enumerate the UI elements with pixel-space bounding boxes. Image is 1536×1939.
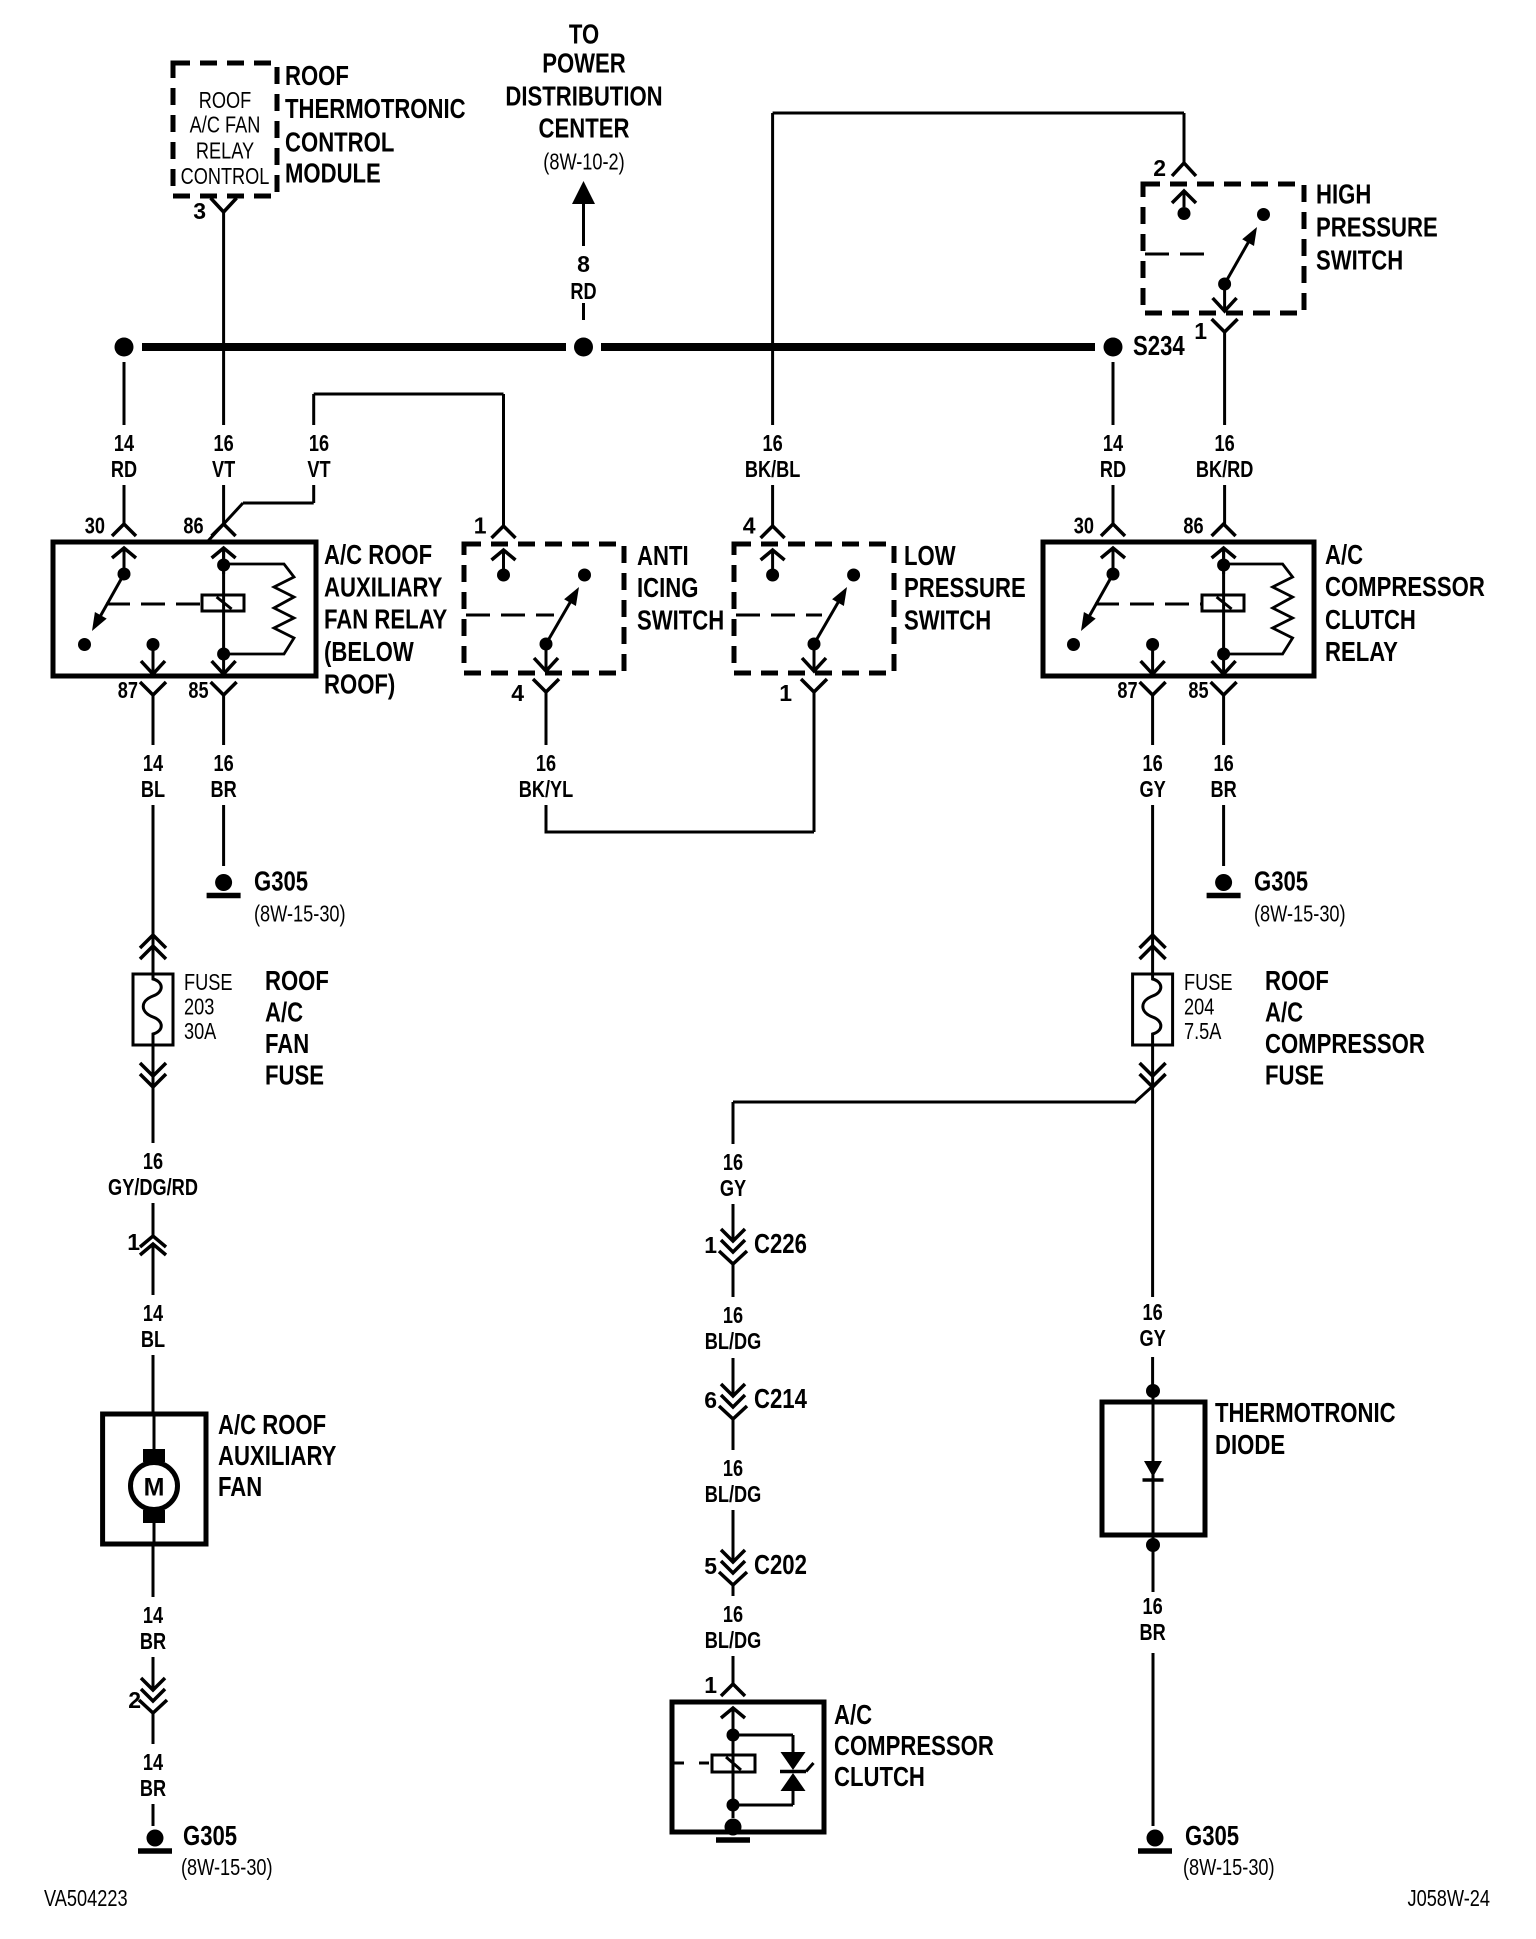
svg-text:87: 87: [1117, 677, 1137, 703]
A/C roof auxiliary fan relay switch arm: [98, 574, 124, 621]
svg-text:16: 16: [763, 430, 783, 456]
wire: main bus left segment: [142, 343, 566, 351]
svg-text:16: 16: [723, 1601, 743, 1627]
svg-text:A/C: A/C: [265, 997, 303, 1028]
svg-text:S234: S234: [1133, 330, 1185, 361]
svg-text:16: 16: [536, 750, 556, 776]
high pressure switch arm pivot: [1218, 278, 1231, 291]
A/C roof auxiliary fan relay pin 86 connector: [212, 524, 236, 536]
svg-text:2: 2: [1153, 155, 1166, 181]
svg-text:THERMOTRONIC: THERMOTRONIC: [285, 93, 466, 124]
svg-text:8: 8: [577, 251, 590, 277]
svg-text:(BELOW: (BELOW: [324, 636, 414, 667]
high pressure switch fixed contact: [1257, 208, 1270, 221]
svg-text:FUSE: FUSE: [1184, 969, 1233, 995]
svg-text:30: 30: [85, 513, 105, 539]
junction: bus left node: [115, 338, 134, 357]
relay A/C compressor clutch relay box: [1043, 542, 1314, 676]
wire: module pin 3 to relay 86 (16 VT), crosses bus: [222, 212, 225, 425]
ground left relay: [215, 874, 232, 891]
wire: 14 RD to clutch relay pin 30: [1112, 362, 1115, 425]
svg-text:A/C FAN: A/C FAN: [190, 112, 261, 138]
svg-text:(8W-15-30): (8W-15-30): [254, 901, 346, 927]
svg-text:1: 1: [474, 513, 487, 539]
anti icing switch bottom pin 4: [534, 658, 558, 671]
wire: anti icing switch pin 1 to relay pin 86 (16 VT): [314, 393, 504, 396]
svg-text:A/C: A/C: [1265, 997, 1303, 1028]
arrow to power distribution center: [572, 181, 595, 204]
svg-text:14: 14: [143, 1749, 163, 1775]
svg-text:GY: GY: [720, 1175, 746, 1201]
svg-text:CENTER: CENTER: [539, 113, 630, 144]
svg-text:1: 1: [704, 1672, 717, 1698]
svg-text:BR: BR: [1211, 776, 1237, 802]
svg-text:COMPRESSOR: COMPRESSOR: [1325, 571, 1485, 602]
svg-text:16: 16: [1143, 750, 1163, 776]
svg-text:BL/DG: BL/DG: [705, 1481, 762, 1507]
A/C compressor clutch relay common contact: [1107, 568, 1120, 581]
connector out of fuse block (down chevrons, right): [1140, 1063, 1166, 1076]
wire: clutch relay 87 output 16 GY: [1151, 695, 1154, 745]
high pressure switch upper contact: [1178, 207, 1191, 220]
svg-text:ANTI: ANTI: [637, 540, 689, 571]
A/C roof auxiliary fan relay pin 85 connector: [212, 661, 236, 674]
A/C roof auxiliary fan relay suppression resistor: [229, 564, 294, 654]
wire: 14 RD to fan relay pin 30: [123, 362, 126, 425]
connector C226: [721, 1229, 745, 1241]
svg-text:1: 1: [127, 1229, 140, 1255]
clutch suppression diode (TVS): [733, 1734, 793, 1737]
svg-text:FAN: FAN: [265, 1028, 309, 1059]
svg-text:BK/YL: BK/YL: [519, 776, 574, 802]
in-line connector pin 2: [141, 1678, 165, 1690]
in-line connector pin 1 (fan feed): [140, 1236, 166, 1247]
svg-text:16: 16: [1214, 750, 1234, 776]
wire: to C214: [732, 1358, 735, 1396]
svg-text:COMPRESSOR: COMPRESSOR: [834, 1730, 994, 1761]
A/C compressor clutch relay pin 87 connector: [1141, 661, 1165, 674]
A/C compressor clutch relay coil: [1202, 595, 1244, 611]
svg-text:(8W-15-30): (8W-15-30): [181, 1854, 273, 1880]
svg-text:CONTROL: CONTROL: [181, 163, 270, 189]
svg-text:ROOF: ROOF: [285, 60, 349, 91]
svg-text:4: 4: [511, 680, 524, 706]
A/C compressor clutch relay pin 30 connector: [1101, 524, 1125, 536]
wire: 16 VT lower segment: [222, 485, 225, 524]
splice: branch to compressor clutch: [1134, 1075, 1165, 1103]
svg-text:14: 14: [143, 1300, 163, 1326]
svg-text:4: 4: [743, 513, 756, 539]
clutch coil: [732, 1735, 735, 1818]
wire: relay 87 output 14 BL: [152, 695, 155, 745]
A/C roof auxiliary fan relay pin 87 terminal dot: [147, 638, 160, 651]
ground G305 (diode): [1147, 1830, 1164, 1847]
connector into fuse block (up chevrons, right): [1140, 946, 1166, 959]
svg-text:SWITCH: SWITCH: [904, 604, 991, 635]
svg-text:MODULE: MODULE: [285, 158, 381, 189]
svg-text:RD: RD: [111, 456, 137, 482]
node: diode box bottom: [1146, 1538, 1160, 1552]
wire to left relay: [222, 805, 225, 866]
svg-text:86: 86: [183, 513, 203, 539]
high pressure switch actuator (dashed): [1145, 253, 1215, 256]
svg-text:C202: C202: [754, 1549, 807, 1580]
svg-text:204: 204: [1184, 994, 1214, 1020]
svg-text:BL: BL: [141, 776, 165, 802]
A/C compressor clutch relay coil wire 86-85: [1222, 548, 1225, 674]
fuse element (204): [1143, 974, 1161, 1045]
svg-text:J058W-24: J058W-24: [1408, 1885, 1491, 1911]
svg-text:16: 16: [214, 750, 234, 776]
fan motor M1: [153, 1414, 156, 1452]
svg-text:16: 16: [1143, 1299, 1163, 1325]
A/C roof auxiliary fan relay common contact: [118, 568, 131, 581]
svg-text:AUXILIARY: AUXILIARY: [324, 572, 443, 603]
low pressure switch switch arm: [814, 597, 841, 644]
svg-text:A/C: A/C: [1325, 539, 1363, 570]
A/C compressor clutch relay pin 85 connector: [1212, 661, 1236, 674]
high pressure switch arm: [1225, 237, 1252, 284]
wire: diode to G305 16 BR: [1152, 1545, 1155, 1592]
thermotronic diode box: [1102, 1402, 1205, 1535]
fuse 204 (roof A/C compressor fuse): [1133, 974, 1173, 1045]
svg-text:G305: G305: [1254, 866, 1308, 897]
low pressure switch (dashed box): [734, 544, 894, 673]
low pressure switch actuator (dashed): [736, 614, 822, 617]
A/C compressor clutch relay suppression resistor: [1229, 564, 1293, 654]
svg-text:1: 1: [1194, 318, 1207, 344]
connector C214: [721, 1384, 745, 1396]
svg-text:(8W-15-30): (8W-15-30): [1254, 901, 1346, 927]
svg-text:BL/DG: BL/DG: [705, 1328, 762, 1354]
svg-text:CONTROL: CONTROL: [285, 127, 394, 158]
svg-text:G305: G305: [1185, 1820, 1239, 1851]
clutch top node: [727, 1729, 740, 1742]
svg-text:FAN: FAN: [218, 1471, 262, 1502]
svg-text:A/C ROOF: A/C ROOF: [324, 539, 432, 570]
svg-text:BK/BL: BK/BL: [745, 456, 801, 482]
A/C roof auxiliary fan relay coil: [202, 595, 244, 611]
svg-text:(8W-10-2): (8W-10-2): [543, 149, 624, 175]
svg-text:16: 16: [723, 1302, 743, 1328]
svg-text:THERMOTRONIC: THERMOTRONIC: [1215, 1397, 1396, 1428]
svg-text:16: 16: [309, 430, 329, 456]
svg-text:14: 14: [143, 1602, 163, 1628]
svg-text:(8W-15-30): (8W-15-30): [1183, 1854, 1275, 1880]
anti icing switch actuator (dashed): [466, 614, 554, 617]
wire: power feed to high pressure switch pin 2: [773, 112, 1184, 115]
svg-text:G305: G305: [254, 866, 308, 897]
diode D1: [1152, 1391, 1155, 1545]
low pressure switch upper contact: [766, 569, 779, 582]
fuse 203 (roof A/C fan fuse): [133, 974, 173, 1045]
svg-text:1: 1: [704, 1232, 717, 1258]
A/C roof auxiliary fan relay 87 contact dot: [78, 638, 91, 651]
A/C roof auxiliary fan relay pin 30 connector: [112, 524, 136, 536]
svg-text:85: 85: [188, 677, 208, 703]
anti icing switch switch arm: [546, 597, 573, 644]
svg-text:CLUTCH: CLUTCH: [834, 1761, 925, 1792]
svg-text:M: M: [144, 1474, 165, 1502]
svg-text:1: 1: [779, 680, 792, 706]
ground G305 (fan): [147, 1830, 164, 1847]
anti icing switch upper contact: [497, 569, 510, 582]
svg-text:SWITCH: SWITCH: [637, 604, 724, 635]
low pressure switch fixed contact: [847, 569, 860, 582]
wire into clutch pin 1: [732, 1656, 735, 1684]
svg-text:ROOF: ROOF: [1265, 965, 1329, 996]
clutch bottom node: [727, 1799, 740, 1812]
high pressure switch (dashed box): [1143, 184, 1304, 313]
svg-text:BR: BR: [140, 1628, 166, 1654]
svg-text:FAN RELAY: FAN RELAY: [324, 604, 448, 635]
svg-text:SWITCH: SWITCH: [1316, 245, 1403, 276]
svg-text:16: 16: [1143, 1593, 1163, 1619]
A/C roof auxiliary fan relay coil wire 86-85: [222, 548, 225, 674]
svg-text:ICING: ICING: [637, 572, 698, 603]
connector C202: [721, 1550, 745, 1562]
svg-text:GY: GY: [1139, 1325, 1165, 1351]
svg-text:DIODE: DIODE: [1215, 1429, 1285, 1460]
anti icing switch fixed contact: [578, 569, 591, 582]
wire: 16 BR relay 85 to G305 (left): [222, 695, 225, 745]
svg-text:VT: VT: [212, 456, 235, 482]
wire: 16 BK/YL anti icing pin 4 to low pressure pin 1: [545, 692, 548, 745]
svg-text:14: 14: [143, 750, 163, 776]
svg-text:30A: 30A: [184, 1018, 217, 1044]
wire: 16 GY to C226: [732, 1204, 735, 1241]
svg-text:PRESSURE: PRESSURE: [1316, 212, 1438, 243]
svg-text:BL/DG: BL/DG: [705, 1627, 762, 1653]
svg-text:LOW: LOW: [904, 540, 956, 571]
junction: bus 8 RD node: [574, 338, 593, 357]
svg-text:87: 87: [118, 677, 138, 703]
wire: fuse 203 output: [152, 1045, 155, 1143]
svg-text:16: 16: [723, 1149, 743, 1175]
svg-text:16: 16: [1215, 430, 1235, 456]
svg-text:BR: BR: [1140, 1619, 1166, 1645]
A/C roof auxiliary fan relay coil bottom node: [217, 648, 230, 661]
svg-text:CLUTCH: CLUTCH: [1325, 604, 1416, 635]
svg-text:AUXILIARY: AUXILIARY: [218, 1440, 337, 1471]
low pressure switch arm pivot: [808, 638, 821, 651]
svg-text:HIGH: HIGH: [1316, 179, 1371, 210]
svg-text:BK/RD: BK/RD: [1196, 456, 1254, 482]
fuse element: [143, 974, 161, 1045]
low pressure switch top pin 4: [761, 526, 785, 538]
A/C compressor clutch relay coil bottom node: [1217, 648, 1230, 661]
svg-text:30: 30: [1074, 513, 1094, 539]
svg-text:16: 16: [143, 1148, 163, 1174]
A/C compressor clutch relay pin 86 connector: [1212, 524, 1236, 536]
wire: to C202: [732, 1510, 735, 1562]
A/C compressor clutch relay switch arm: [1087, 574, 1113, 621]
A/C roof auxiliary fan relay pin 87 connector: [141, 661, 165, 674]
svg-text:A/C ROOF: A/C ROOF: [218, 1409, 326, 1440]
svg-text:COMPRESSOR: COMPRESSOR: [1265, 1028, 1425, 1059]
wire: 16 BK/RD to clutch relay 86: [1223, 332, 1226, 425]
anti icing switch top pin 1: [492, 526, 516, 538]
anti icing switch (dashed box): [464, 544, 624, 673]
wire: 8 RD lower stub: [582, 303, 585, 320]
svg-text:RELAY: RELAY: [1325, 636, 1398, 667]
node: diode box top: [1146, 1384, 1160, 1398]
svg-text:ROOF: ROOF: [199, 87, 252, 113]
relay A/C roof auxiliary fan relay box: [53, 542, 316, 676]
svg-text:G305: G305: [183, 1820, 237, 1851]
svg-text:GY: GY: [1139, 776, 1165, 802]
A/C roof auxiliary fan (box): [103, 1414, 206, 1544]
svg-text:POWER: POWER: [542, 48, 626, 79]
pin 3 connector: [211, 198, 237, 212]
svg-text:86: 86: [1183, 513, 1203, 539]
svg-text:VT: VT: [307, 456, 330, 482]
connector into fuse block (up chevrons): [140, 946, 166, 959]
A/C compressor clutch relay pin 87 terminal dot: [1146, 638, 1159, 651]
svg-text:PRESSURE: PRESSURE: [904, 572, 1026, 603]
svg-text:BL: BL: [141, 1326, 165, 1352]
svg-text:FUSE: FUSE: [184, 969, 233, 995]
wire into thermotronic diode: [1151, 1357, 1154, 1391]
svg-text:ROOF: ROOF: [265, 965, 329, 996]
svg-text:BR: BR: [140, 1775, 166, 1801]
svg-text:7.5A: 7.5A: [1184, 1018, 1222, 1044]
wire: fuse 204 output 16 GY: [1151, 1045, 1154, 1297]
svg-text:FUSE: FUSE: [265, 1060, 324, 1091]
A/C roof auxiliary fan relay coil actuation (dashed): [106, 603, 202, 606]
svg-text:6: 6: [704, 1387, 717, 1413]
connector out of fuse block (down chevrons): [140, 1063, 166, 1076]
wire into fan: [152, 1355, 155, 1416]
svg-text:RD: RD: [1100, 456, 1126, 482]
svg-text:3: 3: [193, 198, 206, 224]
A/C compressor clutch relay coil top node: [1217, 559, 1230, 572]
wire: 16 BR clutch relay 85 to G305: [1222, 695, 1225, 745]
A/C compressor clutch relay 87 contact dot: [1067, 638, 1080, 651]
svg-text:TO: TO: [569, 19, 599, 50]
svg-text:14: 14: [114, 430, 134, 456]
wire: 16 GY/DG/RD to fan connector: [152, 1203, 155, 1236]
ground clutch relay: [1215, 874, 1232, 891]
A/C compressor clutch box: [672, 1702, 824, 1832]
wire: branch to A/C compressor clutch: [733, 1101, 1134, 1104]
svg-text:203: 203: [184, 994, 214, 1020]
low pressure switch bottom pin 1: [802, 658, 826, 671]
wire: fan ground path 14 BR: [152, 1544, 155, 1597]
svg-text:DISTRIBUTION: DISTRIBUTION: [505, 81, 662, 112]
svg-text:14: 14: [1103, 430, 1123, 456]
wire: main bus right segment: [601, 343, 1095, 351]
svg-text:C226: C226: [754, 1228, 807, 1259]
svg-text:85: 85: [1188, 677, 1208, 703]
svg-text:RELAY: RELAY: [196, 138, 254, 164]
svg-text:A/C: A/C: [834, 1699, 872, 1730]
svg-text:16: 16: [723, 1455, 743, 1481]
svg-text:C214: C214: [754, 1383, 807, 1414]
svg-text:BR: BR: [211, 776, 237, 802]
module: roof thermotronic control module (dashed box): [173, 63, 277, 196]
svg-text:2: 2: [128, 1687, 141, 1713]
A/C compressor clutch relay coil actuation (dashed): [1095, 603, 1202, 606]
svg-text:RD: RD: [570, 278, 596, 304]
svg-text:5: 5: [704, 1553, 717, 1579]
svg-text:FUSE: FUSE: [1265, 1060, 1324, 1091]
svg-text:ROOF): ROOF): [324, 669, 395, 700]
wire to clutch relay: [1222, 805, 1225, 866]
svg-text:16: 16: [214, 430, 234, 456]
svg-text:VA504223: VA504223: [44, 1885, 128, 1911]
svg-text:GY/DG/RD: GY/DG/RD: [108, 1174, 198, 1200]
anti icing switch arm pivot: [540, 638, 553, 651]
clutch actuation dashes: [674, 1762, 712, 1765]
wire: 8 RD feed upper stub: [582, 204, 585, 246]
A/C roof auxiliary fan relay coil top node: [217, 559, 230, 572]
clutch internal ground: [725, 1819, 742, 1836]
junction: splice S234: [1104, 338, 1123, 357]
